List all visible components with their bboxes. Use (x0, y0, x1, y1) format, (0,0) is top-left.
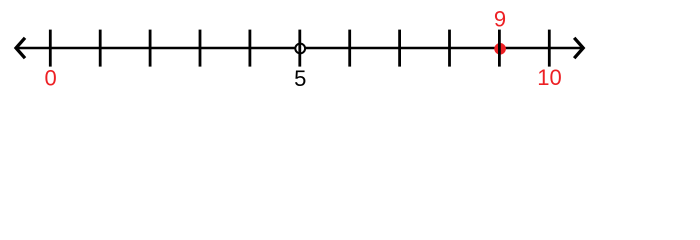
right arrowhead (574, 38, 583, 58)
svg-text:0: 0 (44, 65, 56, 90)
open circle at 5 (295, 44, 305, 54)
ticks 0..10 (50, 30, 549, 67)
red dot at 9 (494, 43, 506, 55)
svg-text:9: 9 (494, 7, 506, 32)
svg-text:5: 5 (294, 66, 306, 91)
left arrowhead (16, 38, 25, 58)
svg-text:10: 10 (537, 65, 561, 90)
number line shaft (15, 47, 583, 50)
